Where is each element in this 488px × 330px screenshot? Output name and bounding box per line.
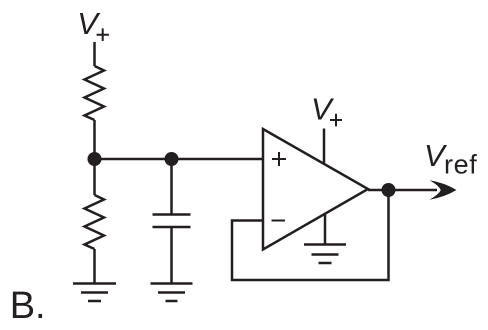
svg-text:V: V (311, 92, 335, 127)
svg-text:V: V (77, 6, 101, 41)
svg-text:B.: B. (10, 285, 46, 327)
svg-text:ref: ref (444, 149, 477, 179)
